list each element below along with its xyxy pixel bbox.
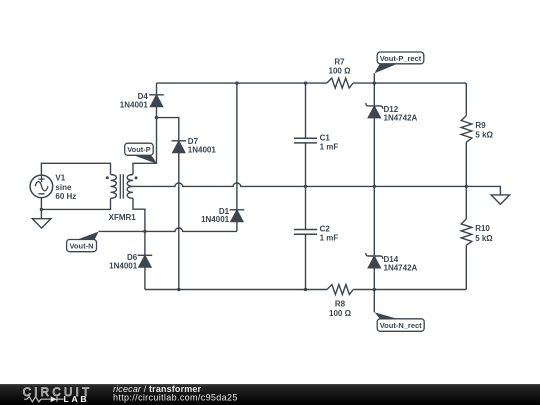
svg-text:1N4001: 1N4001 [188, 145, 217, 154]
svg-text:Vout-P: Vout-P [127, 145, 151, 154]
svg-text:100 Ω: 100 Ω [329, 67, 352, 76]
svg-text:LAB: LAB [64, 394, 90, 404]
svg-text:Vout-N_rect: Vout-N_rect [380, 321, 422, 330]
svg-text:http://circuitlab.com/c95da25: http://circuitlab.com/c95da25 [113, 393, 238, 403]
svg-text:C1: C1 [320, 133, 331, 142]
svg-text:1 mF: 1 mF [320, 143, 339, 152]
svg-text:XFMR1: XFMR1 [109, 213, 137, 222]
svg-text:1N4001: 1N4001 [120, 101, 149, 110]
svg-text:C2: C2 [320, 224, 331, 233]
svg-text:60 Hz: 60 Hz [55, 192, 76, 201]
svg-text:R9: R9 [475, 121, 486, 130]
svg-text:Vout-P_rect: Vout-P_rect [380, 54, 422, 63]
svg-text:1 mF: 1 mF [320, 234, 339, 243]
svg-text:V1: V1 [55, 174, 65, 183]
svg-text:1N4742A: 1N4742A [384, 264, 418, 273]
svg-text:5 kΩ: 5 kΩ [475, 130, 493, 139]
svg-text:100 Ω: 100 Ω [329, 309, 352, 318]
svg-text:1N4001: 1N4001 [201, 215, 230, 224]
svg-text:R8: R8 [335, 300, 346, 309]
svg-text:Vout-N: Vout-N [69, 242, 93, 251]
svg-text:sine: sine [55, 183, 72, 192]
svg-text:R10: R10 [475, 224, 490, 233]
svg-text:5 kΩ: 5 kΩ [475, 234, 493, 243]
svg-text:1N4001: 1N4001 [109, 262, 138, 271]
svg-text:R7: R7 [334, 58, 345, 67]
svg-text:1N4742A: 1N4742A [384, 114, 418, 123]
